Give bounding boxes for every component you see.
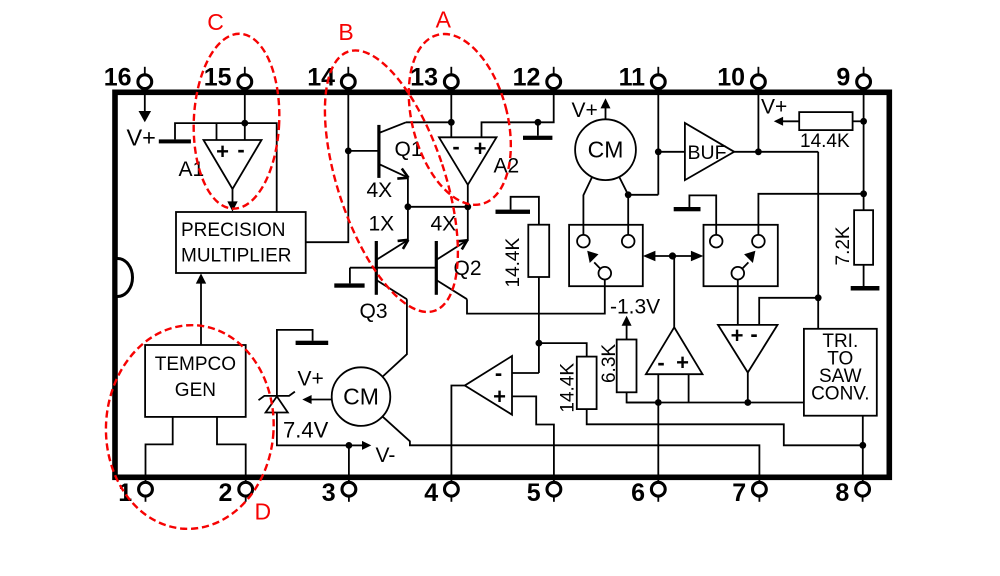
- wire Q1 emitter down: [407, 178, 409, 207]
- wire 6.3K bottom: [627, 392, 659, 402]
- wire A1 output arrow to multiplier: [227, 189, 237, 212]
- wire down op-amp output: [747, 373, 749, 403]
- transistor Q3: [376, 240, 408, 299]
- svg-text:BUF: BUF: [688, 142, 727, 164]
- pin-1 indicator notch: [118, 259, 133, 297]
- switch box right: [704, 225, 778, 286]
- wire zener to pin 3: [277, 413, 349, 446]
- ground stub Q3 base: [349, 268, 351, 284]
- svg-text:Q1: Q1: [395, 138, 423, 161]
- svg-text:2: 2: [218, 479, 232, 507]
- node pin 3 junction: [346, 442, 353, 449]
- node pin9/7.2K junction: [860, 190, 867, 197]
- pin 16: [104, 64, 152, 92]
- wire pin 3 stub: [348, 445, 350, 481]
- svg-text:12: 12: [513, 64, 541, 92]
- svg-text:-1.3V: -1.3V: [610, 296, 660, 319]
- svg-text:+: +: [731, 323, 744, 348]
- pin 13: [410, 64, 458, 92]
- node BUF drop junction: [815, 294, 822, 301]
- transistor Q1: [379, 122, 409, 178]
- wire comparator plus to pin 5: [512, 396, 554, 481]
- node junction pin12: [535, 119, 542, 126]
- op-amp (up-pointing, pin 6): [646, 327, 703, 375]
- annotation ellipse A: [392, 23, 528, 216]
- svg-text:6.3K: 6.3K: [599, 344, 620, 383]
- node BUF input junction: [655, 148, 662, 155]
- node 14.4K junction: [536, 340, 543, 347]
- node A2 output junction: [464, 203, 471, 210]
- ground bar (pin 12): [523, 136, 552, 140]
- precision multiplier box: [176, 212, 306, 273]
- wire A1 + input drop: [216, 123, 218, 140]
- node BUF/pin10 junction: [755, 148, 762, 155]
- zener top wire: [277, 330, 313, 396]
- wire opamp output to switch node: [673, 256, 675, 327]
- svg-text:8: 8: [835, 479, 849, 507]
- svg-text:-: -: [452, 134, 459, 159]
- V+ arrow (upper CM): [601, 98, 611, 119]
- svg-text:4X: 4X: [367, 179, 393, 202]
- wire 14.4K top to ground bar: [511, 197, 539, 225]
- current mirror CM (lower): [332, 367, 391, 426]
- wire CM to pin 11 node: [619, 177, 658, 195]
- pin 6: [631, 479, 665, 507]
- svg-text:MULTIPLIER: MULTIPLIER: [181, 246, 292, 267]
- svg-text:3: 3: [322, 479, 336, 507]
- pin 9: [836, 64, 870, 92]
- pin 1: [118, 479, 152, 507]
- pin 4: [424, 479, 458, 507]
- wire pin16 V+ arrow: [139, 95, 152, 122]
- svg-text:5: 5: [527, 479, 541, 507]
- wire A2 output: [467, 185, 469, 241]
- wire comparator bus (pin 6): [627, 402, 804, 404]
- svg-text:Q3: Q3: [360, 300, 388, 323]
- svg-text:1X: 1X: [369, 213, 395, 236]
- wire switch left top-right drop: [627, 195, 629, 235]
- svg-text:1: 1: [118, 479, 132, 507]
- svg-text:V-: V-: [376, 444, 396, 467]
- wire tempco to pin 2: [217, 417, 246, 481]
- node junction pin13: [448, 119, 455, 126]
- switch box left: [569, 225, 643, 286]
- svg-text:4: 4: [424, 479, 438, 507]
- node pin9/14.4K junction: [860, 118, 867, 125]
- resistor 14.4K (vertical, emitter): [528, 225, 549, 277]
- annotation ellipse C: [190, 32, 283, 210]
- svg-text:14.4K: 14.4K: [800, 131, 850, 152]
- IC body outline: [115, 92, 889, 477]
- V- arrow: [349, 441, 371, 450]
- wire tempco to pin 1: [146, 417, 173, 481]
- op-amp A1: [204, 137, 262, 189]
- wire A2 + input to pin 12: [482, 95, 554, 137]
- wire pin 13 to A2: [450, 95, 452, 137]
- svg-text:15: 15: [204, 64, 232, 92]
- wire to comparator minus: [512, 372, 539, 374]
- svg-text:C: C: [207, 9, 224, 35]
- svg-text:TEMPCO: TEMPCO: [155, 354, 236, 375]
- pin 11: [619, 64, 666, 92]
- svg-text:V+: V+: [298, 368, 324, 391]
- ground stub pin12: [537, 122, 539, 135]
- wire 14.4K bottom: [538, 277, 540, 373]
- node op-amp output junction: [744, 399, 751, 406]
- wire BUF output drop: [817, 152, 819, 329]
- ground bar (zener): [296, 341, 329, 345]
- wire Q3 collector to current mirror: [382, 299, 407, 377]
- svg-text:14: 14: [307, 64, 335, 92]
- annotation ellipse B: [298, 35, 485, 328]
- svg-text:+: +: [216, 139, 229, 164]
- double arrow between switches: [643, 251, 704, 262]
- wire Q1 collector to pin13 node: [406, 121, 451, 123]
- tri to saw converter box: [804, 329, 877, 416]
- svg-text:-: -: [237, 137, 244, 162]
- -1.3V arrow: [622, 316, 632, 340]
- V+ rail thick bar: [159, 139, 191, 143]
- svg-text:+: +: [474, 136, 487, 161]
- buffer BUF: [685, 123, 734, 180]
- svg-text:PRECISION: PRECISION: [181, 220, 286, 241]
- ground bar (7.2K): [851, 286, 880, 291]
- node Q1/Q3 emitter junction: [405, 203, 412, 210]
- wire Q3 emitter riser: [407, 207, 409, 240]
- svg-text:V+: V+: [572, 99, 598, 122]
- svg-text:13: 13: [410, 64, 438, 92]
- svg-text:CM: CM: [343, 384, 379, 410]
- wire right switch to pin 9 bus: [758, 194, 863, 235]
- svg-text:10: 10: [717, 64, 745, 92]
- wire BUF input: [658, 151, 685, 153]
- svg-text:7: 7: [732, 479, 746, 507]
- pin 7: [732, 479, 766, 507]
- svg-text:7.2K: 7.2K: [833, 226, 854, 265]
- wire to downward op-amp minus: [759, 298, 818, 325]
- pin 2: [218, 479, 252, 507]
- wire Q2 collector to switch: [467, 279, 605, 313]
- transistor Q2: [436, 240, 467, 299]
- wire CM lower output to pin 7: [382, 416, 759, 481]
- CM output arrow to zener: [302, 395, 331, 404]
- resistor 14.4K (lower): [577, 357, 597, 410]
- op-amp (down-pointing): [718, 322, 778, 373]
- zener diode 7.4V: [259, 392, 295, 413]
- node pin 6 junction: [655, 399, 662, 406]
- resistor 6.3K: [617, 340, 637, 393]
- wire right switch bottom to op-amp plus: [737, 279, 739, 325]
- node pin 8 junction: [859, 442, 866, 449]
- pin 10: [717, 64, 765, 92]
- svg-text:7.4V: 7.4V: [283, 418, 329, 443]
- node CM/switch junction: [625, 191, 632, 198]
- svg-text:B: B: [338, 19, 353, 45]
- wire pin 10: [757, 95, 759, 152]
- wire pin 11: [657, 95, 659, 195]
- wire pin 9: [863, 95, 865, 210]
- svg-text:-: -: [495, 361, 502, 386]
- ground bar (right switch): [674, 195, 717, 235]
- wire emitter bus: [408, 206, 468, 208]
- svg-text:GEN: GEN: [175, 380, 216, 401]
- svg-text:CM: CM: [588, 137, 624, 163]
- pin 3: [322, 479, 356, 507]
- pin 8: [835, 479, 869, 507]
- pin 12: [513, 64, 561, 92]
- svg-text:D: D: [254, 499, 271, 525]
- pin 15: [204, 64, 252, 92]
- svg-text:A: A: [436, 7, 452, 33]
- wire opamp plus input drop: [688, 374, 690, 402]
- svg-text:4X: 4X: [431, 213, 457, 236]
- wire BUF output: [734, 151, 818, 153]
- wire A1 noninverting input loop: [175, 123, 217, 139]
- svg-text:16: 16: [104, 64, 132, 92]
- wire junction to 14.4K lower resistor: [539, 343, 587, 357]
- svg-text:+: +: [493, 384, 506, 409]
- annotation ellipse D: [100, 321, 279, 534]
- resistor 7.2K: [854, 210, 873, 265]
- svg-text:V+: V+: [761, 96, 787, 119]
- current mirror CM (upper): [575, 119, 636, 180]
- wire 7.2K to ground: [863, 265, 865, 286]
- wire 14.4K lower bottom to pin 8 node: [587, 409, 863, 445]
- svg-text:V+: V+: [127, 125, 156, 151]
- wire Q1 base: [348, 150, 378, 152]
- wire comparator output to pin 4: [451, 386, 464, 482]
- wire pin 15 to A1 inverting input: [244, 95, 246, 140]
- wire CM to left switch: [583, 177, 592, 235]
- svg-text:6: 6: [631, 479, 645, 507]
- resistor 14.4K (horizontal) with arrow: [774, 112, 864, 130]
- node junction pin14/Q1 base: [345, 148, 352, 155]
- pin 5: [527, 479, 561, 507]
- wire pin 6 vertical: [657, 374, 659, 481]
- svg-text:11: 11: [619, 64, 646, 92]
- svg-text:+: +: [676, 350, 689, 375]
- ground bar (14.4K): [496, 210, 531, 214]
- svg-text:9: 9: [836, 64, 850, 92]
- pin 14: [307, 64, 355, 92]
- svg-text:14.4K: 14.4K: [503, 238, 524, 288]
- wire tri box to pin 8: [862, 416, 864, 481]
- wire A1 input bus: [217, 123, 277, 212]
- node junction pin15/A1: [241, 120, 248, 127]
- svg-text:14.4K: 14.4K: [558, 363, 579, 413]
- wire Q2/Q3 base bus: [350, 267, 435, 269]
- svg-text:-: -: [750, 322, 757, 347]
- comparator (pins 4-5): [465, 356, 512, 415]
- tempco gen box: [145, 345, 246, 417]
- svg-text:-: -: [657, 350, 664, 375]
- svg-text:CONV.: CONV.: [811, 384, 869, 405]
- wire pin 14 to multiplier: [306, 95, 348, 242]
- op-amp A2: [439, 134, 497, 185]
- ground bar (Q3 base): [334, 283, 364, 287]
- wire tempco to multiplier arrow: [196, 273, 206, 345]
